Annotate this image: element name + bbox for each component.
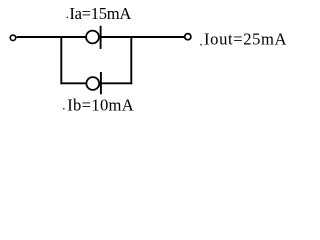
current source Ib bar (direction stroke) (100, 72, 102, 94)
stray dot before Iout label (200, 44, 202, 46)
svg-text:Ia=15mA: Ia=15mA (69, 4, 131, 23)
svg-text:Iout=25mA: Iout=25mA (204, 30, 287, 49)
stray dot before Ib label (63, 108, 65, 110)
wire: left terminal to current source Ia (17, 36, 86, 38)
terminal node left (open circle) (10, 35, 16, 41)
wire: left branch vertical (60, 36, 62, 84)
wire: current source Ia to right terminal (101, 36, 184, 38)
wire: right branch vertical (130, 36, 132, 84)
current source Ib (circle) (86, 77, 99, 90)
current source Ia (circle) (86, 31, 99, 44)
stray dot before Ia label (66, 17, 68, 19)
current source Ia bar (direction stroke) (100, 26, 102, 49)
svg-text:Ib=10mA: Ib=10mA (67, 96, 134, 115)
terminal node right (open circle) (185, 34, 191, 40)
wire: bottom left to current source Ib (60, 82, 85, 84)
wire: current source Ib to bottom right (101, 82, 132, 84)
